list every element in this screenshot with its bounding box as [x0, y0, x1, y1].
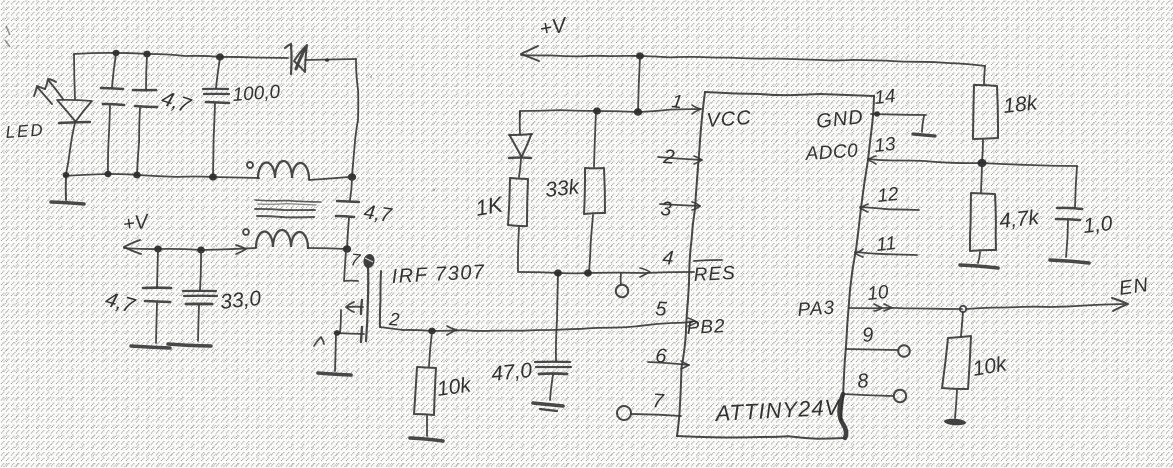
svg-text:ADC0: ADC0 — [804, 140, 859, 165]
wire vertical to C4 — [350, 178, 352, 200]
pin 7 number — [652, 390, 666, 413]
ground (LED) — [51, 176, 84, 204]
transformer core — [255, 200, 321, 217]
junction top rail / C1 — [112, 50, 119, 56]
capacitor C2 4,7 — [133, 55, 157, 174]
junction VCC / R3 — [593, 107, 601, 114]
LED light arrows — [34, 79, 63, 104]
pin 9 terminal circle — [898, 345, 910, 357]
ground (C6) — [168, 344, 211, 346]
wire +V rail (left) — [124, 248, 256, 250]
transformer T1 primary winding — [258, 161, 349, 180]
label pin 2 (Q1) — [388, 309, 400, 330]
pin 8 number — [856, 370, 869, 393]
transistor Q1 gate — [380, 271, 403, 330]
arrow marks near pin 10 — [874, 304, 892, 311]
capacitor C5 4,7 — [143, 250, 171, 343]
arrowhead VCC at chip — [692, 105, 701, 114]
arrow mark on PB2 wire — [447, 326, 457, 335]
terminal stub on RES net — [616, 273, 628, 297]
arrowhead RES at chip — [640, 268, 650, 277]
junction VCC / +V drop — [634, 108, 642, 116]
svg-text:1,0: 1,0 — [1082, 212, 1114, 238]
ground (R6) — [944, 418, 966, 426]
label +V (left) — [122, 210, 151, 235]
svg-text:33k: 33k — [544, 175, 582, 202]
pin 9 line — [846, 349, 897, 350]
label 4,7k (R5) — [998, 206, 1041, 233]
transistor Q1 contact bar 1 — [361, 300, 362, 314]
pin 14 line — [871, 111, 926, 116]
label pin 7 (Q1) — [350, 250, 362, 270]
label 100,0 — [232, 82, 281, 106]
pin 13 number — [873, 134, 897, 157]
label EN — [1118, 274, 1151, 300]
junction RES / C7 — [554, 269, 562, 276]
junction secondary / Q1 drain — [343, 245, 351, 253]
svg-text:12: 12 — [876, 184, 900, 207]
svg-text:10k: 10k — [435, 373, 473, 401]
label PA3 (U1) — [797, 297, 836, 321]
label pin 1 (Q1) — [314, 337, 324, 346]
resistor R3 33k — [584, 112, 605, 272]
svg-text:4,7: 4,7 — [362, 201, 393, 227]
svg-text:2: 2 — [662, 146, 676, 169]
node +V arrow (top) — [521, 46, 539, 61]
svg-text:VCC: VCC — [706, 107, 753, 132]
label 4,7 (C1/C2) — [158, 87, 194, 118]
svg-text:3: 3 — [660, 198, 673, 221]
pin 8 terminal circle — [894, 390, 906, 402]
transistor Q1 source lead — [336, 310, 364, 334]
pin 1 number — [670, 91, 683, 113]
junction RES / R3 — [584, 269, 592, 276]
label 18k (R4) — [1002, 91, 1040, 118]
label IRF7307 — [391, 261, 486, 288]
pin 2 number — [662, 146, 676, 169]
svg-text:2: 2 — [388, 309, 400, 330]
transistor Q1 contact bar 2 — [361, 327, 362, 342]
transistor Q1 drain lead — [344, 250, 358, 281]
label 33k (R3) — [544, 175, 582, 202]
label RES (U1) — [693, 260, 736, 286]
label 1K (R2) — [474, 191, 506, 221]
capacitor C6 33,0 (electrolytic) — [183, 251, 217, 341]
capacitor C8 1,0 — [1056, 166, 1082, 257]
label PB2 (U1) — [686, 316, 726, 339]
pin 2 line — [658, 156, 702, 164]
junction top rail / C2 — [143, 51, 151, 58]
ground (C5) — [131, 346, 170, 348]
phase dot (primary) — [247, 162, 253, 168]
transformer T1 secondary winding — [256, 230, 347, 249]
svg-text:RES: RES — [693, 263, 736, 286]
pin 6 line — [648, 361, 689, 369]
junction bottom rail / C1 — [104, 171, 111, 177]
arrowhead ADC0 at chip — [868, 156, 876, 164]
pin 3 number — [660, 198, 673, 221]
pin 11 line — [855, 249, 917, 257]
label VCC (U1) — [706, 107, 753, 132]
pin 14 number — [873, 86, 896, 109]
arrowhead EN — [1112, 298, 1128, 311]
pin 12 line — [860, 204, 919, 212]
junction +V / C5 — [154, 245, 162, 252]
svg-text:8: 8 — [856, 370, 869, 393]
junction +V / C6 — [197, 246, 205, 253]
ground (pin 14) — [913, 116, 935, 136]
junction vert/bottom rail — [348, 173, 356, 181]
svg-text:13: 13 — [873, 134, 897, 157]
ground (R1) — [410, 438, 443, 441]
LED D1 — [57, 54, 92, 174]
pin 8 blob (Q1) — [362, 253, 376, 269]
label 10k (R6) — [971, 352, 1010, 381]
junction PB2 / R1 — [428, 328, 436, 335]
solder dot — [325, 58, 329, 62]
junction bottom rail / C3 — [209, 173, 217, 180]
label LED — [5, 120, 45, 142]
label 47,0 — [490, 359, 533, 386]
svg-text:14: 14 — [873, 86, 896, 109]
wire PB2 net — [403, 322, 692, 331]
pin 5 number — [655, 298, 669, 321]
diode D3 — [509, 112, 532, 177]
transistor Q1 source arrow — [346, 302, 363, 312]
svg-text:11: 11 — [875, 233, 897, 256]
svg-text:+V: +V — [122, 210, 151, 235]
pin 4 number — [662, 247, 675, 270]
wire RES net — [518, 272, 694, 273]
wire right vertical (LED block) — [352, 59, 358, 176]
resistor R5 4,7k — [970, 164, 996, 263]
wire bottom rail (LED block) — [64, 174, 259, 178]
label +V (top) — [538, 13, 570, 41]
svg-text:PB2: PB2 — [686, 316, 726, 339]
capacitor C3 100,0 (electrolytic) — [203, 58, 229, 175]
resistor R2 1K — [508, 178, 528, 271]
node +V arrow (left) — [124, 240, 141, 254]
svg-text:100,0: 100,0 — [232, 82, 281, 106]
wire VCC rail left hook — [519, 111, 521, 117]
junction ADC0 / R4 / R5 — [977, 159, 986, 167]
wire VCC drop — [638, 57, 640, 111]
arrowhead PB2 at chip — [688, 318, 697, 326]
wire VCC rail — [520, 109, 701, 112]
junction source lead — [334, 330, 340, 336]
label 1,0 (C8) — [1082, 212, 1114, 238]
label 33,0 — [219, 287, 262, 314]
pin 9 number — [861, 324, 874, 347]
node circle EN / R6 — [960, 306, 966, 312]
svg-text:4,7k: 4,7k — [998, 206, 1041, 233]
wire EN net — [849, 304, 1124, 309]
pin 8 line — [843, 394, 893, 396]
svg-text:LED: LED — [5, 120, 45, 142]
paper speck — [5, 26, 1102, 191]
pin 10 number — [866, 282, 890, 305]
wire diode to corner — [305, 59, 356, 60]
wire ADC0 net — [868, 159, 1077, 166]
label ATTINY24V (U1) — [713, 394, 842, 426]
pin 3 line — [660, 202, 700, 210]
pin 7 terminal circle — [617, 406, 631, 420]
svg-text:33,0: 33,0 — [219, 287, 262, 314]
phase dot (secondary) — [243, 229, 249, 235]
wire +V top rail — [521, 55, 985, 66]
junction bottom rail / C2 — [133, 172, 141, 179]
resistor R4 18k — [973, 85, 998, 162]
svg-text:18k: 18k — [1002, 91, 1040, 118]
IC U1 outline — [677, 92, 874, 439]
svg-text:PA3: PA3 — [797, 297, 836, 321]
label ADC0 (U1) — [804, 140, 859, 165]
wire +V to R4 — [984, 66, 985, 84]
label 4,7 (C5) — [103, 288, 139, 319]
label GND (U1) — [815, 106, 864, 133]
svg-text:10: 10 — [866, 282, 890, 305]
capacitor C4 4,7 — [336, 201, 359, 248]
arrow mark on +V rail — [236, 245, 246, 254]
ground (C8) — [1050, 260, 1089, 263]
junction bottom rail / LED — [63, 172, 70, 178]
capacitor C1 4,7 — [101, 54, 124, 173]
svg-text:4: 4 — [662, 247, 675, 270]
svg-text:9: 9 — [861, 324, 874, 347]
pin 6 number — [655, 345, 669, 368]
resistor R1 10k — [414, 332, 436, 436]
diode D2 (top) — [285, 44, 307, 74]
label 10k (R1) — [435, 373, 473, 401]
ground (Q1) — [318, 334, 351, 375]
resistor R6 10k — [942, 312, 971, 418]
transistor Q1 channel — [366, 265, 368, 341]
svg-text:EN: EN — [1118, 274, 1151, 300]
pin 7 line — [631, 414, 681, 416]
pin 12 number — [876, 184, 900, 207]
ground (C7) — [533, 403, 563, 411]
ground (R5) — [960, 265, 998, 268]
capacitor C7 47,0 (electrolytic) — [535, 274, 571, 400]
junction +V top / VCC drop — [636, 52, 644, 59]
label 4,7 (C4) — [362, 201, 393, 227]
junction top rail / C3 — [216, 53, 224, 60]
svg-text:47,0: 47,0 — [490, 359, 533, 386]
wire top rail (LED block) — [74, 53, 288, 58]
pin 11 number — [875, 233, 897, 256]
